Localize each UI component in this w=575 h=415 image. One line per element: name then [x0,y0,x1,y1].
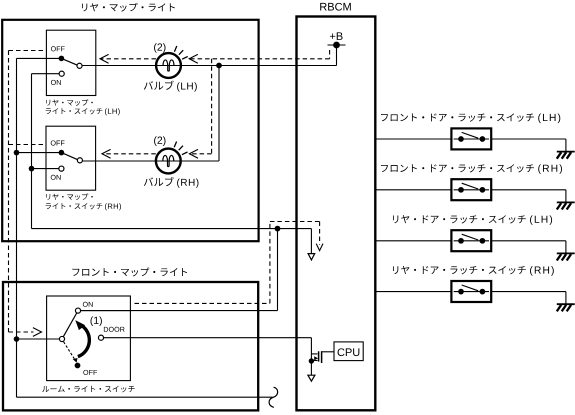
label rear map light switch LH [46,99,93,106]
front door latch switch LH box [451,128,491,149]
dashed current LH row left of bulb [100,58,156,60]
dashed current path from +B [329,50,331,59]
contact OFF LH (closed) [59,56,65,62]
label (2) qty LH [154,43,165,53]
wire lamp feed LH row [82,65,337,67]
wire RBCM to rear door latch switch LH [375,240,451,242]
wire through rear door latch switch LH [454,240,489,242]
switch blade LH [61,58,77,65]
label OFF [51,46,65,51]
transistor Q1 source arrow [314,356,318,360]
label DOOR [104,327,125,332]
rear door latch switch LH box [451,230,491,251]
arrow current RH row right of bulb [189,149,198,158]
wire common bus vertical [16,58,18,397]
dashed current RH row left of bulb [102,153,156,155]
label rear map light switch RH [46,193,93,200]
dashed blade alternate position to OFF [64,342,75,359]
node branch to room switch ON [275,226,281,232]
label rear door latch switch RH [393,266,526,274]
wire ON contact to on-bus [32,73,60,75]
label rear door latch switch LH [393,215,526,223]
wire front door latch switch LH to ground [491,138,566,140]
dashed current path room lamp to RBCM [135,302,270,304]
arrow dashed to RBCM ground [316,244,323,251]
contact ON LH [59,71,64,76]
arrow into room switch [33,328,42,337]
label ON [83,302,93,307]
wire RBCM to front door latch switch RH [375,189,451,191]
wire through rear door latch switch RH [454,291,489,293]
label front door latch switch RH [381,164,534,172]
node on-bus at RH row [29,166,35,172]
wire OFF contact to common bus [17,152,62,154]
outer box: rear map light section [2,20,258,241]
transistor Q1 drain wire [310,338,312,376]
contact DOOR room [98,335,103,340]
dashed off-path to room switch [9,331,34,333]
dashed off-path vertical at far left [8,51,10,333]
+B supply node [330,32,343,40]
wire common bus to room switch [17,338,60,340]
node source junction [309,358,314,363]
wire RBCM to front door latch switch LH [375,138,451,140]
switch blade room (at ON) [63,313,76,337]
contacts rear door latch switch RH [458,289,464,295]
rear map light switch LH box [46,30,95,95]
ground front door latch switch RH [557,201,575,203]
dashed branch down to RH row [211,59,213,154]
rear door latch switch RH box [451,281,491,302]
CPU label [338,348,360,356]
transistor Q1 gate bar [321,351,323,363]
label (2) qty RH [154,136,165,146]
arrow current LH row right of bulb [189,54,198,63]
label bulb LH [144,81,174,90]
wire common bus bottom run [17,396,273,398]
wire OFF contact to common bus [17,57,62,59]
contacts front door latch switch RH [458,187,464,193]
bulb RH [156,149,181,174]
contacts rear door latch switch LH [458,238,464,244]
label OFF [51,140,65,145]
rotation arrow (1) [78,324,89,356]
arrow current LH row at switch [100,54,109,63]
transistor Q1 channel bar [318,351,320,361]
contact pivot RH [77,158,82,163]
wire DOOR contact to RBCM [104,337,312,339]
node common bus at RH row [14,150,20,156]
node lamp feed junction [216,63,222,69]
wire through front door latch switch LH [454,138,489,140]
contacts front door latch switch LH [458,136,464,142]
contact ON RH [59,166,64,171]
wire front door latch switch RH to ground [491,189,566,191]
bulb LH [156,53,181,78]
wire ON contact [81,310,131,312]
dashed off-path RH switch [9,144,45,146]
title rear map light [82,3,175,12]
switch blade RH [61,153,77,160]
label (1) [90,316,101,326]
arrow to RBCM internal ground [308,254,315,260]
wire gate to CPU [322,351,334,353]
dashed off-path LH switch [9,50,45,52]
ground rear door latch switch LH [557,252,575,254]
wire on-bus vertical [31,74,33,229]
wire lamp feed RH row [82,160,219,162]
ground rear door latch switch RH [557,303,575,305]
label ON [51,80,61,85]
ground arrow inside RBCM [308,375,315,381]
title front map light [72,268,187,277]
rear map light switch RH box [46,126,96,190]
label OFF [83,370,97,375]
outer box: front map light section [3,282,258,410]
label bulb RH [144,177,174,186]
contact ON room [75,308,80,313]
wire ON contact to on-bus [32,168,59,170]
wire into RBCM ground path [310,229,312,254]
wire +B down to lamp feed [336,45,338,66]
wire RBCM to rear door latch switch RH [375,291,451,293]
wire branch down to room switch ON [277,229,279,311]
room light switch box [47,296,131,381]
wire rear door latch switch LH to ground [491,240,566,242]
contact OFF room (dot) [75,363,81,369]
node common bus at room switch [14,336,20,342]
wire junction down to RH row [218,66,220,162]
break symbol continuation [269,387,278,407]
wire through front door latch switch RH [454,189,489,191]
front door latch switch RH box [451,179,491,200]
wire on-bus to RBCM [32,228,312,230]
label front door latch switch LH [381,113,534,121]
arrow current RH row at switch [102,149,111,158]
contact common room [59,336,64,341]
CPU box U2 [334,342,363,361]
RBCM box U1 [297,17,376,411]
label ON [51,175,61,180]
contact pivot LH [77,63,82,68]
label room light switch [42,386,134,393]
contact OFF RH (closed) [59,150,65,156]
wire rear door latch switch RH to ground [491,291,566,293]
ground front door latch switch LH [557,151,575,153]
RBCM label [320,3,351,11]
